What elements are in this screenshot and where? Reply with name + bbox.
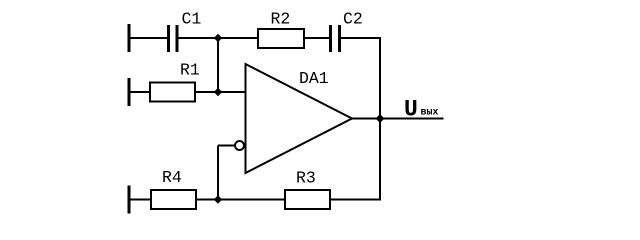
svg-text:R2: R2 bbox=[271, 10, 291, 29]
wire bbox=[129, 199, 151, 201]
resistor R2 bbox=[258, 10, 304, 49]
node junction output bbox=[376, 114, 385, 123]
wire bbox=[305, 37, 329, 39]
wire bbox=[196, 199, 285, 201]
wire bbox=[330, 199, 381, 201]
resistor R1 bbox=[150, 61, 200, 102]
node junction bottom bbox=[214, 195, 223, 204]
svg-text:R1: R1 bbox=[180, 61, 200, 80]
wire bbox=[129, 37, 167, 39]
label U out bbox=[404, 97, 439, 123]
resistor R3 bbox=[285, 169, 330, 210]
node junction middle bbox=[214, 88, 223, 97]
capacitor C2 bbox=[329, 10, 363, 53]
wire output bbox=[352, 118, 444, 120]
wire bbox=[179, 37, 258, 39]
wire vertical node top to mid bbox=[217, 38, 219, 92]
wire feedback horizontal bbox=[218, 145, 235, 147]
input terminal bottom bbox=[128, 186, 131, 214]
wire bbox=[129, 91, 150, 93]
node junction top bbox=[214, 34, 223, 43]
svg-text:C2: C2 bbox=[343, 10, 363, 29]
input terminal middle bbox=[128, 78, 131, 106]
wire bbox=[195, 91, 246, 93]
svg-text:DA1: DA1 bbox=[299, 69, 329, 88]
svg-text:R3: R3 bbox=[296, 169, 316, 188]
inverting input bubble bbox=[235, 141, 244, 150]
svg-text:C1: C1 bbox=[182, 10, 202, 29]
capacitor C1 bbox=[167, 10, 201, 53]
input terminal top bbox=[128, 24, 131, 52]
svg-text:R4: R4 bbox=[162, 168, 182, 187]
resistor R4 bbox=[151, 168, 196, 209]
wire feedback vertical bbox=[217, 146, 219, 201]
svg-text:вых: вых bbox=[421, 108, 439, 119]
wire right vertical bbox=[379, 38, 381, 200]
svg-text:U: U bbox=[404, 97, 418, 123]
op-amp DA1 bbox=[246, 64, 353, 173]
wire bbox=[341, 37, 381, 39]
